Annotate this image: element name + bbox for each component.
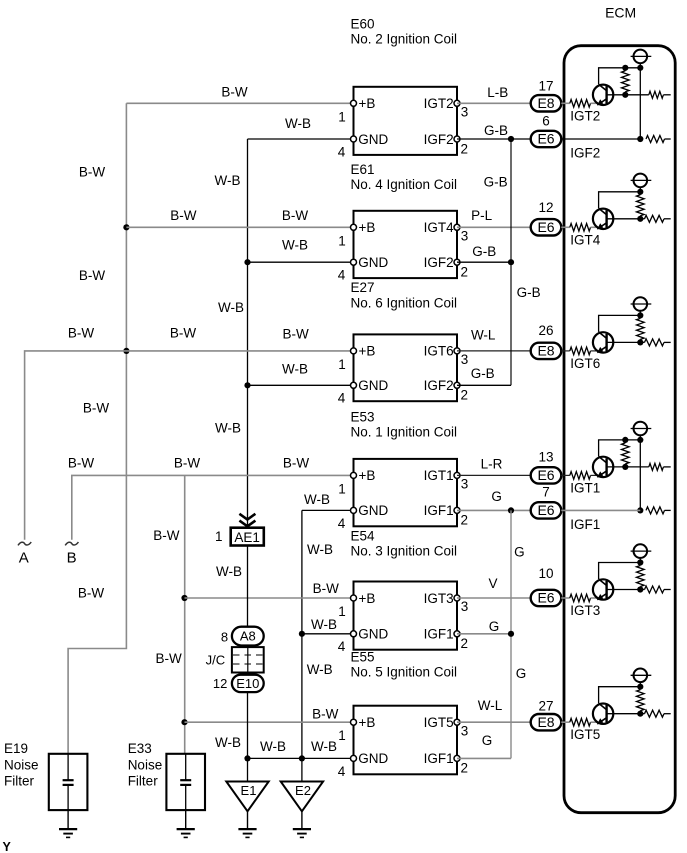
- svg-text:W-B: W-B: [285, 116, 311, 131]
- ignition coil E53 box: [354, 459, 458, 526]
- svg-text:IGF1: IGF1: [570, 517, 600, 532]
- wire W-B AE1 to A8: [247, 546, 249, 627]
- svg-text:G: G: [491, 489, 502, 504]
- svg-text:+B: +B: [359, 715, 376, 730]
- svg-text:IGT1: IGT1: [570, 480, 600, 495]
- svg-text:B-W: B-W: [78, 586, 105, 601]
- svg-text:B-W: B-W: [174, 456, 201, 471]
- collector wire Q5: [599, 563, 641, 580]
- svg-text:No. 2 Ignition Coil: No. 2 Ignition Coil: [351, 32, 458, 47]
- svg-text:+B: +B: [359, 591, 376, 606]
- junction G on IGF1 line: [508, 507, 514, 513]
- svg-text:A: A: [19, 550, 29, 567]
- junction G-B at E61 IGF2: [508, 259, 514, 265]
- svg-text:IGF2: IGF2: [424, 132, 454, 147]
- svg-text:IGF2: IGF2: [424, 255, 454, 270]
- noise filter E19 box: [49, 754, 88, 810]
- J/C dashed line 2: [233, 663, 263, 665]
- wire G IGF1 E54 branch: [457, 633, 511, 635]
- svg-text:E6: E6: [537, 131, 554, 147]
- wire stub E6-6 into ECM: [561, 138, 564, 140]
- svg-text:3: 3: [461, 477, 469, 492]
- resistor pull-up IGT1: [622, 443, 630, 464]
- svg-text:+B: +B: [359, 344, 376, 359]
- svg-text:4: 4: [338, 391, 346, 406]
- svg-text:W-B: W-B: [215, 735, 241, 750]
- svg-text:IGT6: IGT6: [424, 344, 454, 359]
- junction B-W at E61 branch: [123, 224, 129, 230]
- wire B-W main vertical (x=126): [68, 103, 126, 754]
- junction rail/resistor IGT3: [637, 559, 643, 565]
- resistor input IGT4: [564, 226, 570, 228]
- svg-text:2: 2: [461, 636, 469, 651]
- wire stub E6-13 into ECM: [561, 474, 564, 476]
- connector E6 pin 6 (IGF2): [531, 131, 562, 147]
- junction rail/resistor IGT2: [622, 65, 628, 71]
- E27 pin 4 (GND): [351, 382, 357, 388]
- wire B-W from node A: [25, 351, 354, 540]
- connector E8 pin 26 (IGT6): [531, 343, 562, 359]
- svg-text:+B: +B: [359, 468, 376, 483]
- connector E6 pin 12 (IGT4): [531, 219, 562, 235]
- svg-text:W-B: W-B: [215, 173, 241, 188]
- svg-text:26: 26: [538, 323, 553, 338]
- power supply symbol IGT4: [631, 179, 652, 181]
- svg-text:No. 3 Ignition Coil: No. 3 Ignition Coil: [351, 543, 458, 558]
- E54 pin 1 (+B): [351, 595, 357, 601]
- svg-text:Y: Y: [3, 840, 12, 853]
- wire W-B to E55 GND: [248, 757, 354, 759]
- wire W-B to E54 GND: [302, 633, 354, 635]
- svg-text:Noise: Noise: [128, 758, 163, 773]
- svg-text:1: 1: [338, 481, 346, 496]
- power supply symbol IGT3: [631, 550, 652, 552]
- svg-text:W-B: W-B: [216, 564, 242, 579]
- svg-text:Filter: Filter: [128, 774, 159, 789]
- E60 pin 4 (GND): [351, 136, 357, 142]
- svg-text:IGT5: IGT5: [424, 715, 454, 730]
- ignition coil E54 box: [354, 582, 458, 650]
- E55 pin 2 (IGF1): [454, 755, 460, 761]
- svg-text:2: 2: [461, 761, 469, 776]
- svg-text:E8: E8: [537, 95, 554, 111]
- svg-text:8: 8: [221, 630, 228, 645]
- ignition coil E60 box: [354, 87, 458, 155]
- E27 pin 1 (+B): [351, 348, 357, 354]
- svg-text:B-W: B-W: [68, 326, 95, 341]
- svg-text:1: 1: [338, 109, 346, 124]
- base output wire IGT1: [607, 466, 649, 468]
- svg-text:1: 1: [338, 233, 346, 248]
- wire W-B to E60 GND: [248, 138, 354, 140]
- transistor Q3 (IGT6 driver): [593, 332, 613, 353]
- wire G IGF1 E55 branch: [457, 757, 511, 759]
- ignition coil E55 box: [354, 706, 458, 775]
- svg-text:J/C: J/C: [206, 653, 226, 668]
- svg-text:4: 4: [338, 268, 346, 283]
- connector E10 oval: [232, 675, 264, 692]
- resistor pull-up IGT2: [622, 71, 630, 92]
- wire stub E6-10 into ECM: [561, 597, 564, 599]
- ground symbol under E19: [67, 810, 69, 829]
- connector E6 pin 10 (IGT3): [531, 590, 562, 606]
- svg-text:W-B: W-B: [260, 739, 286, 754]
- resistor output IGT4: [645, 215, 665, 222]
- svg-text:IGT2: IGT2: [570, 108, 600, 123]
- wire W-L IGT6 to ECM: [457, 350, 531, 352]
- svg-text:B-W: B-W: [282, 327, 309, 342]
- E61 pin 1 (+B): [351, 224, 357, 230]
- svg-text:E53: E53: [351, 410, 375, 425]
- wire W-B to E53 GND: [302, 509, 354, 511]
- wire W-B to E27 GND: [248, 384, 354, 386]
- resistor output IGT5: [645, 710, 665, 717]
- svg-text:V: V: [488, 576, 497, 591]
- svg-text:B-W: B-W: [79, 164, 106, 179]
- svg-text:1: 1: [338, 728, 346, 743]
- svg-text:G-B: G-B: [484, 174, 508, 189]
- svg-text:E54: E54: [351, 528, 376, 543]
- connector A8 oval: [232, 627, 264, 646]
- transistor Q5 (IGT3 driver): [593, 579, 613, 600]
- wire stub E6-12 into ECM: [561, 226, 564, 228]
- wire stub E8-26 into ECM: [561, 350, 564, 352]
- svg-text:No. 4 Ignition Coil: No. 4 Ignition Coil: [351, 177, 458, 192]
- junction B-W at A line: [123, 348, 129, 354]
- svg-text:E10: E10: [236, 676, 259, 691]
- resistor output IGT6: [645, 339, 665, 346]
- svg-text:E1: E1: [241, 783, 257, 798]
- base output wire IGT6: [607, 341, 645, 343]
- svg-text:3: 3: [461, 723, 469, 738]
- wire B-W to E55 +B: [185, 721, 354, 723]
- wire W-L IGT5 to ECM: [457, 721, 531, 723]
- svg-text:E19: E19: [4, 741, 28, 756]
- power supply symbol IGT5: [631, 674, 652, 676]
- wire B-W from node B: [72, 475, 354, 539]
- svg-text:B-W: B-W: [312, 706, 339, 721]
- E53 pin 4 (GND): [351, 507, 357, 513]
- wire power to IGF1 line: [639, 435, 641, 510]
- svg-text:L-B: L-B: [487, 85, 508, 100]
- svg-text:IGF2: IGF2: [570, 146, 600, 161]
- junction base/resistor IGT2: [622, 92, 628, 98]
- junction IGF1 pull-up: [637, 507, 643, 513]
- junction rail/resistor IGT1: [622, 437, 628, 443]
- wire W-B to E61 GND: [248, 261, 354, 263]
- svg-text:+B: +B: [359, 220, 376, 235]
- E53 pin 1 (+B): [351, 472, 357, 478]
- E53 pin 2 (IGF1): [454, 507, 460, 513]
- svg-text:2: 2: [461, 388, 469, 403]
- connector AE1 box: [231, 528, 264, 546]
- E27 pin 3 (IGT6): [454, 348, 460, 354]
- resistor output IGT2: [649, 91, 664, 98]
- collector wire Q4: [599, 440, 641, 457]
- junction W-B at E27 GND branch: [244, 382, 250, 388]
- svg-text:IGT2: IGT2: [424, 96, 454, 111]
- junction W-B at E55 GND line: [299, 755, 305, 761]
- wire power stub IGT4: [639, 187, 641, 192]
- svg-text:B-W: B-W: [153, 528, 180, 543]
- svg-text:No. 5 Ignition Coil: No. 5 Ignition Coil: [351, 665, 458, 680]
- resistor pull-up IGT3: [637, 566, 645, 587]
- E27 pin 2 (IGF2): [454, 382, 460, 388]
- transistor Q6 (IGT5 driver): [593, 703, 613, 724]
- ignition coil E61 box: [354, 211, 458, 278]
- wire G-B vertical IGF2 bus: [510, 139, 512, 385]
- svg-text:GND: GND: [358, 255, 388, 270]
- svg-text:E55: E55: [351, 650, 375, 665]
- svg-text:B: B: [67, 550, 77, 567]
- svg-text:E2: E2: [295, 783, 311, 798]
- svg-text:W-B: W-B: [218, 300, 244, 315]
- svg-text:GND: GND: [358, 503, 388, 518]
- svg-text:P-L: P-L: [471, 208, 493, 223]
- svg-text:10: 10: [538, 566, 553, 581]
- wire power stub IGT3: [639, 558, 641, 563]
- svg-text:B-W: B-W: [283, 456, 310, 471]
- svg-text:G-B: G-B: [517, 285, 541, 300]
- svg-text:No. 6 Ignition Coil: No. 6 Ignition Coil: [351, 295, 458, 310]
- junction W-B at E54 GND branch: [299, 631, 305, 637]
- svg-text:W-B: W-B: [282, 238, 308, 253]
- svg-text:B-W: B-W: [282, 208, 309, 223]
- J/C centre wire: [247, 647, 249, 672]
- svg-text:IGT3: IGT3: [424, 591, 454, 606]
- svg-text:4: 4: [338, 516, 346, 531]
- svg-text:IGT6: IGT6: [570, 356, 600, 371]
- svg-text:IGT5: IGT5: [570, 727, 600, 742]
- wire B-W vertical to E33 (x=184.5): [184, 475, 186, 753]
- E53 pin 3 (IGT1): [454, 472, 460, 478]
- svg-text:IGT3: IGT3: [570, 603, 600, 618]
- svg-text:G: G: [482, 733, 493, 748]
- svg-text:E6: E6: [537, 502, 554, 518]
- wire L-B IGT2 to ECM: [457, 102, 531, 104]
- svg-text:W-B: W-B: [304, 492, 330, 507]
- junction base/resistor IGT3: [637, 586, 643, 592]
- power supply symbol IGT2: [631, 55, 652, 57]
- resistor IGF1: [646, 507, 665, 514]
- wire IGF1 inside ECM: [564, 509, 640, 511]
- E54 pin 2 (IGF1): [454, 631, 460, 637]
- svg-text:4: 4: [338, 144, 346, 159]
- svg-text:3: 3: [461, 229, 469, 244]
- collector wire Q3: [599, 315, 641, 332]
- E61 pin 4 (GND): [351, 259, 357, 265]
- svg-text:B-W: B-W: [170, 208, 197, 223]
- wire W-B vertical E2 branch (x=301.9): [301, 510, 303, 781]
- svg-text:E61: E61: [351, 162, 375, 177]
- transistor Q1 (IGT2 driver): [593, 84, 613, 105]
- wire power stub IGT5: [639, 682, 641, 687]
- resistor IGF2: [646, 136, 665, 143]
- connector E6 pin 13 (IGT1): [531, 467, 562, 483]
- svg-text:4: 4: [338, 764, 346, 779]
- resistor output IGT3: [645, 586, 665, 593]
- junction rail/resistor IGT4: [637, 189, 643, 195]
- svg-text:13: 13: [538, 449, 553, 464]
- E60 pin 1 (+B): [351, 100, 357, 106]
- svg-text:E6: E6: [537, 590, 554, 606]
- base output wire IGT3: [607, 589, 645, 591]
- svg-text:G: G: [489, 619, 500, 634]
- svg-text:W-B: W-B: [307, 662, 333, 677]
- wire B-W to E54 +B: [185, 597, 354, 599]
- collector wire Q2: [599, 192, 641, 209]
- svg-text:IGT4: IGT4: [424, 220, 454, 235]
- wire stub E8-17 into ECM: [561, 102, 564, 104]
- svg-text:3: 3: [461, 352, 469, 367]
- svg-text:+B: +B: [359, 96, 376, 111]
- ground point E1 triangle: [226, 782, 268, 812]
- base output wire IGT4: [607, 218, 645, 220]
- svg-text:G: G: [514, 545, 525, 560]
- junction rail/power IGT2: [637, 65, 643, 71]
- resistor input IGT5: [564, 721, 570, 723]
- svg-text:A8: A8: [240, 629, 256, 644]
- wire W-B E10 to E1: [247, 692, 249, 781]
- junction W-B at E61 GND branch: [244, 259, 250, 265]
- wire power stub IGT6: [639, 311, 641, 316]
- svg-text:W-B: W-B: [311, 739, 337, 754]
- svg-text:W-B: W-B: [311, 617, 337, 632]
- svg-text:2: 2: [461, 141, 469, 156]
- wire IGF2 inside ECM: [564, 138, 640, 140]
- wire V IGT3 to ECM: [457, 597, 531, 599]
- noise filter E33 box: [166, 754, 205, 810]
- resistor input IGT6: [564, 350, 570, 352]
- svg-text:E27: E27: [351, 280, 375, 295]
- junction rail/power IGT1: [637, 437, 643, 443]
- junction G at E54 IGF1: [508, 631, 514, 637]
- junction base/resistor IGT6: [637, 339, 643, 345]
- connector AE1 arrows: [239, 514, 255, 520]
- wire G-B IGF2 E61 branch: [457, 261, 511, 263]
- resistor pull-up IGT6: [637, 318, 645, 339]
- ground symbol under E1: [247, 811, 249, 829]
- svg-text:GND: GND: [358, 627, 388, 642]
- junction rail/resistor IGT6: [637, 312, 643, 318]
- svg-text:B-W: B-W: [155, 651, 182, 666]
- wire W-B main vertical (x=247.5): [247, 139, 249, 528]
- svg-text:G: G: [516, 666, 527, 681]
- wire power to IGF2 line: [639, 63, 641, 139]
- ECM box: [564, 46, 675, 813]
- ignition coil E27 box: [354, 334, 458, 401]
- E55 pin 1 (+B): [351, 719, 357, 725]
- node B break symbol: [65, 542, 78, 545]
- svg-text:12: 12: [213, 676, 227, 691]
- svg-text:AE1: AE1: [234, 530, 260, 545]
- svg-text:17: 17: [538, 79, 553, 94]
- E54 pin 3 (IGT3): [454, 595, 460, 601]
- svg-text:7: 7: [542, 485, 550, 500]
- svg-text:L-R: L-R: [481, 457, 503, 472]
- E61 pin 2 (IGF2): [454, 259, 460, 265]
- wire G-B IGF2 E60 to E6: [457, 138, 531, 140]
- collector wire Q1: [599, 68, 641, 85]
- svg-text:1: 1: [338, 604, 346, 619]
- transistor Q2 (IGT4 driver): [593, 208, 613, 229]
- resistor pull-up IGT4: [637, 195, 645, 216]
- svg-text:W-B: W-B: [282, 361, 308, 376]
- wire B-W to E60 +B: [126, 102, 353, 104]
- wire G vertical IGF1 bus: [510, 510, 512, 758]
- junction G-B on IGF2 line: [508, 136, 514, 142]
- svg-text:W-B: W-B: [307, 542, 333, 557]
- svg-text:B-W: B-W: [79, 268, 106, 283]
- junction W-B E55 GND at E1: [244, 755, 250, 761]
- svg-text:B-W: B-W: [68, 456, 95, 471]
- svg-text:B-W: B-W: [313, 581, 340, 596]
- svg-text:E8: E8: [537, 714, 554, 730]
- E60 pin 2 (IGF2): [454, 136, 460, 142]
- svg-text:ECM: ECM: [605, 5, 636, 21]
- svg-text:B-W: B-W: [83, 401, 110, 416]
- svg-text:IGF1: IGF1: [424, 627, 454, 642]
- svg-text:12: 12: [538, 200, 553, 215]
- svg-text:IGT1: IGT1: [424, 468, 454, 483]
- svg-text:2: 2: [461, 265, 469, 280]
- svg-text:G-B: G-B: [472, 244, 496, 259]
- transistor Q4 (IGT1 driver): [593, 456, 613, 477]
- svg-text:IGF1: IGF1: [424, 751, 454, 766]
- wire P-L IGT4 to ECM: [457, 226, 531, 228]
- svg-text:4: 4: [338, 639, 346, 654]
- resistor input IGT2: [564, 102, 570, 104]
- connector E6 pin 7 (IGF1): [531, 502, 562, 518]
- svg-text:W-L: W-L: [478, 698, 503, 713]
- E61 pin 3 (IGT4): [454, 224, 460, 230]
- junction B-W at E55 branch: [181, 719, 187, 725]
- wire L-R IGT1 to ECM: [457, 474, 531, 476]
- svg-text:G-B: G-B: [484, 123, 508, 138]
- base output wire IGT2: [607, 94, 649, 96]
- resistor input IGT1: [564, 474, 570, 476]
- collector wire Q6: [599, 687, 641, 704]
- junction IGF2 pull-up: [637, 136, 643, 142]
- svg-text:1: 1: [215, 529, 223, 544]
- junction connector J/C box: [232, 647, 264, 672]
- svg-text:E60: E60: [351, 17, 375, 32]
- svg-text:E6: E6: [537, 219, 554, 235]
- svg-text:E8: E8: [537, 343, 554, 359]
- power supply symbol IGT1: [631, 428, 652, 430]
- resistor output IGT1: [649, 463, 664, 470]
- E60 pin 3 (IGT2): [454, 100, 460, 106]
- junction rail/resistor IGT5: [637, 684, 643, 690]
- ground symbol under E2: [301, 811, 303, 829]
- svg-text:GND: GND: [358, 378, 388, 393]
- svg-text:IGF1: IGF1: [424, 503, 454, 518]
- svg-text:2: 2: [461, 513, 469, 528]
- svg-text:3: 3: [461, 599, 469, 614]
- resistor pull-up IGT5: [637, 690, 645, 711]
- svg-text:B-W: B-W: [170, 326, 197, 341]
- J/C dashed line 1: [233, 654, 263, 656]
- base output wire IGT5: [607, 713, 645, 715]
- wire stub E6-7 into ECM: [561, 509, 564, 511]
- svg-text:1: 1: [338, 357, 346, 372]
- wire B-W to E61 +B: [126, 226, 353, 228]
- svg-text:IGF2: IGF2: [424, 378, 454, 393]
- wire G-B IGF2 E27 branch: [457, 384, 511, 386]
- svg-text:GND: GND: [358, 751, 388, 766]
- E55 pin 3 (IGT5): [454, 719, 460, 725]
- connector E8 pin 27 (IGT5): [531, 714, 562, 730]
